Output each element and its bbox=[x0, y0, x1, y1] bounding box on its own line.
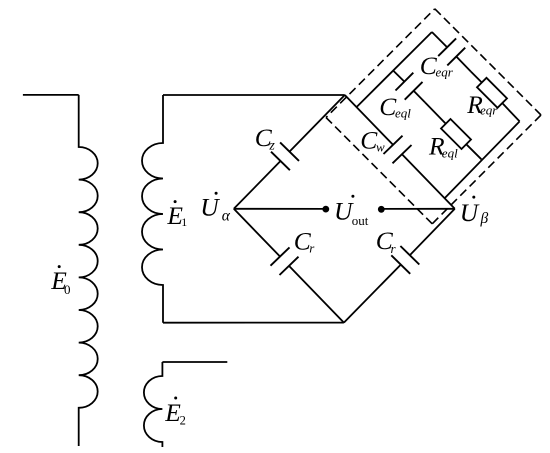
svg-text:β: β bbox=[480, 210, 489, 227]
svg-text:eql: eql bbox=[395, 105, 411, 120]
wire bottom (E1 to bridge bottom vertex) bbox=[163, 322, 344, 324]
label Cr right bbox=[376, 226, 397, 256]
label Cw bbox=[360, 125, 385, 154]
center line with output node dots bbox=[234, 206, 455, 213]
capacitor Ceql on middle branch bbox=[393, 71, 425, 103]
capacitor Cz on arm Ualpha-T bbox=[234, 95, 345, 209]
wire Reqr to lower rail bbox=[502, 103, 519, 121]
label Cz bbox=[255, 123, 276, 154]
capacitor Cw on arm T-Ubeta bbox=[345, 95, 455, 209]
capacitor Ceqr on right branch bbox=[432, 32, 471, 72]
svg-text:U: U bbox=[200, 193, 220, 222]
label E1 bbox=[166, 200, 187, 230]
capacitor Cr right on arm Ubeta-B bbox=[344, 209, 455, 323]
svg-text:eql: eql bbox=[442, 145, 458, 160]
winding E0 bbox=[23, 95, 98, 446]
svg-text:U: U bbox=[460, 198, 480, 227]
svg-text:r: r bbox=[391, 241, 397, 256]
resistor Reqr bbox=[477, 78, 507, 108]
label E0 bbox=[50, 265, 70, 297]
svg-text:α: α bbox=[222, 208, 231, 225]
label Cr left bbox=[294, 227, 316, 256]
wire Ceql to Reql bbox=[425, 102, 446, 123]
label Ualpha bbox=[200, 192, 231, 225]
equivalent network upper rail (J1 to top corner) bbox=[357, 32, 432, 107]
equivalent network lower rail (arm junction to right corner) bbox=[445, 121, 520, 198]
label Ubeta bbox=[460, 196, 489, 227]
svg-text:2: 2 bbox=[180, 414, 186, 428]
svg-text:0: 0 bbox=[64, 282, 71, 297]
svg-text:eqr: eqr bbox=[436, 64, 454, 79]
svg-text:w: w bbox=[376, 140, 385, 155]
resistor Reql bbox=[441, 119, 471, 149]
label Reql bbox=[428, 132, 458, 161]
winding E2 bbox=[144, 362, 227, 447]
svg-text:out: out bbox=[352, 213, 369, 228]
wire top (E1 to bridge top vertex) bbox=[163, 94, 345, 96]
svg-text:1: 1 bbox=[181, 215, 187, 229]
svg-text:z: z bbox=[268, 138, 275, 153]
label Ceqr bbox=[420, 51, 454, 80]
svg-text:eqr: eqr bbox=[480, 102, 498, 117]
label E2 bbox=[164, 397, 186, 428]
label Reqr bbox=[466, 90, 498, 119]
label Ceql bbox=[379, 92, 411, 121]
wire Ceqr to Reqr bbox=[471, 72, 482, 83]
svg-text:r: r bbox=[309, 240, 315, 255]
capacitor Cr left on arm Ualpha-B bbox=[234, 209, 344, 323]
winding E1 bbox=[142, 95, 163, 323]
label Uout bbox=[334, 195, 369, 228]
dashed equivalent-circuit boundary box bbox=[326, 9, 541, 224]
wire Reql to lower rail bbox=[466, 144, 481, 159]
